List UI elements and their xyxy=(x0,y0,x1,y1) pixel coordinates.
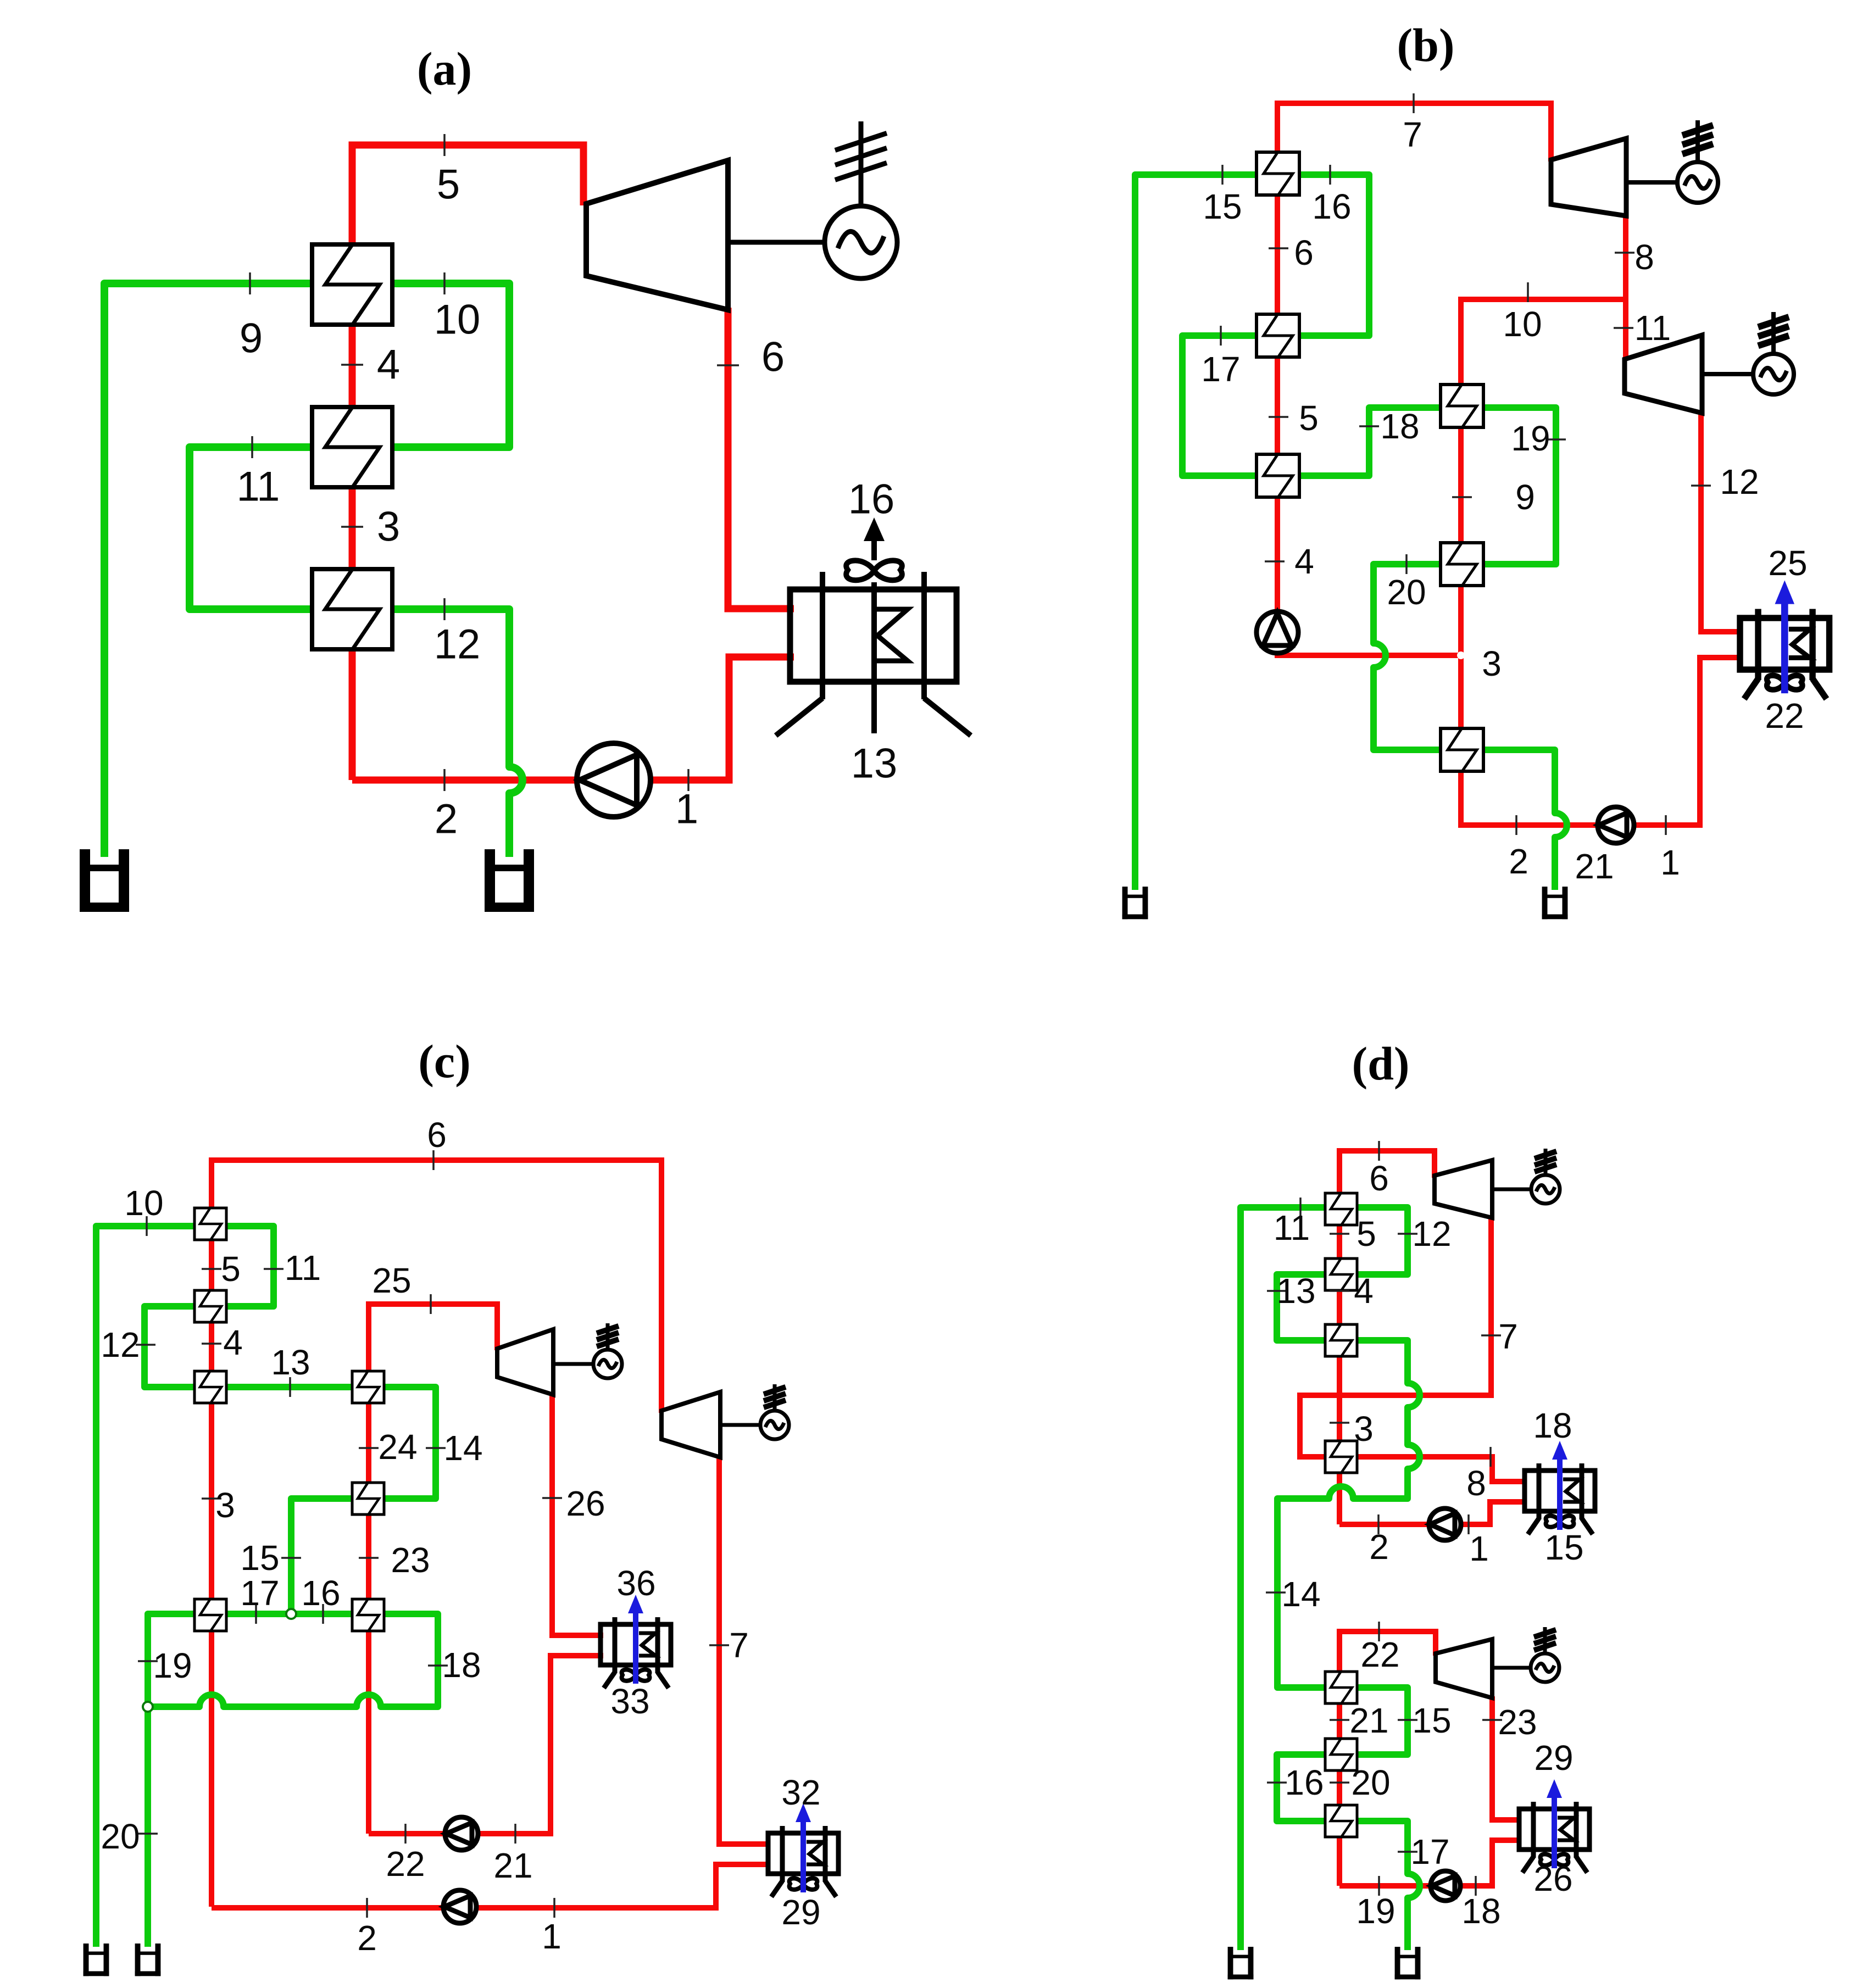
svg-text:18: 18 xyxy=(442,1645,481,1685)
svg-text:16: 16 xyxy=(301,1573,340,1613)
wire red c26: turbine c1 exhaust to ACC1 xyxy=(552,1393,603,1635)
generator b-G1 xyxy=(1677,120,1718,203)
turbine d-T2 xyxy=(1436,1639,1492,1698)
svg-text:11: 11 xyxy=(237,464,280,510)
wire green 10: HX1 to HX2 xyxy=(390,283,509,447)
svg-text:17: 17 xyxy=(1201,349,1240,389)
junction tee ring c (15/16/17) xyxy=(286,1609,296,1619)
heat exchanger a-HX2 (11) xyxy=(312,407,392,487)
heat exchanger c-HX2 (5/12) xyxy=(194,1290,226,1322)
sink c-S2 xyxy=(135,1944,161,1976)
svg-text:26: 26 xyxy=(1533,1859,1572,1898)
sink d-S1 xyxy=(1228,1947,1254,1979)
generator c-G1 xyxy=(593,1323,622,1378)
junction merge ring c (19/20) xyxy=(143,1702,153,1712)
wire green d17: to sink2 with hop xyxy=(1355,1821,1420,1950)
heat exchanger b-HX4 (18/19) xyxy=(1441,385,1483,427)
wire red c7: turbine c2 exhaust down to ACC2 xyxy=(719,1455,768,1844)
wire green b20 with hop over red xyxy=(1374,564,1442,750)
heat exchanger c-HX6 (17/19) xyxy=(194,1599,226,1631)
wire red c1: ACC2 out to bottom line to column1 xyxy=(212,1864,768,1908)
turbine a-T1 xyxy=(586,160,728,310)
svg-text:6: 6 xyxy=(1369,1159,1389,1198)
svg-text:7: 7 xyxy=(729,1625,749,1665)
wire green c16-17: middle row through tee xyxy=(224,1611,354,1617)
ticks and labels panel c xyxy=(101,1115,820,1958)
heat exchanger c-HX3 (4/13) xyxy=(194,1371,226,1403)
svg-text:5: 5 xyxy=(437,162,460,208)
svg-text:8: 8 xyxy=(1466,1463,1486,1503)
svg-text:7: 7 xyxy=(1403,115,1422,154)
svg-text:10: 10 xyxy=(434,297,481,343)
svg-text:13: 13 xyxy=(851,740,898,787)
wire green c13: HX3 to HX4 xyxy=(224,1384,354,1390)
wire red d18-19: ACC d2 out through pump d2 back to column xyxy=(1339,1840,1519,1886)
air cooled condenser c-ACC2 (29/32) xyxy=(768,1803,838,1897)
svg-text:23: 23 xyxy=(1498,1702,1537,1742)
svg-text:6: 6 xyxy=(1294,233,1314,272)
svg-text:11: 11 xyxy=(1274,1208,1310,1248)
svg-text:3: 3 xyxy=(215,1485,235,1525)
heat exchanger b-HX1 (15/16) xyxy=(1257,152,1299,195)
heat exchanger c-HX7 (16/18) xyxy=(352,1599,384,1631)
wire green b16: HX1 to HX2 xyxy=(1298,175,1369,336)
svg-text:15: 15 xyxy=(1544,1528,1583,1567)
svg-text:17: 17 xyxy=(1410,1832,1449,1872)
svg-text:9: 9 xyxy=(1515,477,1535,517)
wire green d14: with hops to lower cycle xyxy=(1277,1340,1420,1688)
wire red 6: turbine exhaust to condenser inlet xyxy=(728,308,794,609)
wire red b7: pump1 up through heater column to turbine 1 xyxy=(1277,103,1551,637)
svg-text:6: 6 xyxy=(427,1115,447,1155)
svg-text:8: 8 xyxy=(1634,237,1654,277)
svg-text:19: 19 xyxy=(1511,419,1550,458)
svg-text:1: 1 xyxy=(1469,1529,1489,1568)
svg-text:12: 12 xyxy=(1720,462,1759,502)
svg-text:7: 7 xyxy=(1498,1317,1518,1356)
svg-text:19: 19 xyxy=(1356,1891,1395,1931)
turbine b-T2 xyxy=(1625,335,1702,413)
heat exchanger d-HX5 (21/20) xyxy=(1325,1739,1357,1770)
svg-text:14: 14 xyxy=(443,1428,482,1468)
wire green b21: to sink2 with hop over red xyxy=(1482,750,1567,890)
sink b-S2 xyxy=(1542,887,1568,919)
svg-text:22: 22 xyxy=(386,1844,425,1884)
wire green c15: HX5 down to tee xyxy=(291,1499,354,1614)
svg-text:(b): (b) xyxy=(1397,19,1454,71)
wire red d1-2: ACC d1 out through pump d1 back to column xyxy=(1339,1502,1525,1524)
svg-text:10: 10 xyxy=(1503,304,1542,344)
generator a-G1 with grid symbol xyxy=(825,121,897,279)
svg-text:11: 11 xyxy=(1634,308,1671,348)
svg-text:20: 20 xyxy=(1351,1763,1390,1802)
wire green c20: merge down to sink2 xyxy=(144,1707,151,1947)
svg-text:20: 20 xyxy=(101,1817,140,1856)
svg-text:3: 3 xyxy=(377,504,400,550)
svg-text:11: 11 xyxy=(285,1248,321,1288)
svg-text:26: 26 xyxy=(566,1484,605,1523)
svg-text:18: 18 xyxy=(1380,406,1419,446)
svg-text:4: 4 xyxy=(1294,542,1314,581)
heat exchanger a-HX1 (9/10) xyxy=(312,244,392,325)
turbine c-T2 xyxy=(661,1392,720,1457)
heat exchanger b-HX5 (9/20) xyxy=(1441,543,1483,586)
shaft d-T2 xyxy=(1492,1666,1531,1670)
svg-text:3: 3 xyxy=(1482,644,1502,683)
svg-text:1: 1 xyxy=(675,786,698,833)
heat exchanger d-HX6 (20/17) xyxy=(1325,1805,1357,1837)
sink a-S2 xyxy=(485,849,534,912)
shaft d-T1 xyxy=(1492,1188,1532,1191)
turbine d-T1 xyxy=(1435,1160,1492,1218)
wire green b18: HX3 to HX right column xyxy=(1298,408,1442,476)
heat exchanger b-HX2 (17) xyxy=(1257,314,1299,357)
pump c-P2 xyxy=(443,1890,476,1923)
pump d-P1 xyxy=(1429,1508,1461,1540)
wire green c19: HX6 left down to merge ring xyxy=(148,1614,197,1707)
sink b-S1 xyxy=(1122,887,1148,919)
heat exchanger d-HX2 (13/4) xyxy=(1325,1258,1357,1290)
wire green b19 xyxy=(1482,408,1556,564)
svg-text:2: 2 xyxy=(357,1918,377,1958)
svg-text:22: 22 xyxy=(1360,1635,1399,1674)
wire red b1: condenser outlet to pump2 xyxy=(1616,658,1743,825)
air cooled condenser d-ACC1 (18/15) xyxy=(1525,1441,1595,1534)
turbine c-T1 xyxy=(497,1329,553,1395)
wire green d13 xyxy=(1277,1274,1327,1340)
svg-text:4: 4 xyxy=(377,342,400,388)
wire green d15 xyxy=(1355,1688,1408,1755)
svg-text:15: 15 xyxy=(1412,1701,1451,1740)
svg-text:16: 16 xyxy=(1285,1763,1324,1802)
svg-text:5: 5 xyxy=(1299,398,1319,438)
svg-text:2: 2 xyxy=(1509,842,1528,881)
svg-text:14: 14 xyxy=(1281,1574,1320,1614)
svg-text:23: 23 xyxy=(391,1540,430,1580)
wire green b15: source to HX top and sink1 xyxy=(1135,175,1258,890)
heat exchanger c-HX5 (23) xyxy=(352,1483,384,1514)
air-cooled condenser a-ACC (13/16) xyxy=(776,517,971,736)
svg-text:(c): (c) xyxy=(418,1035,470,1088)
pump c-P1 xyxy=(445,1817,478,1850)
wire green c12 xyxy=(144,1306,197,1387)
wire red c6: column 1 up to turbine c2 xyxy=(212,1160,661,1907)
air cooled condenser d-ACC2 (29/26) xyxy=(1519,1779,1589,1873)
svg-text:2: 2 xyxy=(435,796,458,843)
heat exchanger b-HX6 xyxy=(1441,728,1483,771)
svg-text:(a): (a) xyxy=(417,42,472,95)
wire green c10: source to sink1 xyxy=(96,1226,197,1947)
pump b-P1 (vertical) xyxy=(1257,611,1298,653)
svg-text:12: 12 xyxy=(101,1325,140,1365)
wire green c14: HX4 to HX5 xyxy=(382,1387,436,1499)
sink a-S1 xyxy=(80,849,129,912)
heat exchanger b-HX3 xyxy=(1257,454,1299,497)
svg-text:24: 24 xyxy=(378,1427,417,1467)
svg-text:33: 33 xyxy=(610,1681,649,1721)
heat exchanger c-HX1 (10/11) xyxy=(194,1208,226,1240)
svg-text:25: 25 xyxy=(1768,543,1807,583)
air cooled condenser c-ACC1 (33/36) xyxy=(601,1595,671,1688)
heat exchanger a-HX3 (12) xyxy=(312,569,392,649)
heat exchanger c-HX4 (24) xyxy=(352,1371,384,1403)
svg-text:4: 4 xyxy=(1354,1271,1374,1311)
generator c-G2 xyxy=(760,1384,789,1439)
generator b-G2 xyxy=(1753,312,1794,394)
pump a-P1 xyxy=(577,743,651,817)
generator d-G2 xyxy=(1531,1627,1559,1682)
svg-text:(d): (d) xyxy=(1352,1037,1409,1090)
ticks and labels panel d xyxy=(1266,1141,1584,1931)
wire red c25: column 2 to turbine c1 xyxy=(369,1304,497,1834)
shaft a xyxy=(728,240,825,245)
heat exchanger d-HX1 (11/5) xyxy=(1325,1193,1357,1225)
sink d-S2 xyxy=(1395,1947,1421,1979)
wire red 5: evaporator outlet to turbine inlet xyxy=(352,145,583,780)
ticks and labels panel b xyxy=(1201,93,1807,886)
svg-text:21: 21 xyxy=(493,1846,532,1885)
svg-text:32: 32 xyxy=(781,1773,820,1812)
svg-text:15: 15 xyxy=(240,1538,279,1578)
wire red c21-22: ACC1 out through pump c1 to column 2 xyxy=(369,1656,603,1834)
wire red b8-10: turbine1 exhaust to turbine2 and branch to HX column xyxy=(1623,214,1628,361)
junction node 3 xyxy=(1457,651,1465,659)
heat exchanger d-IHE (3) xyxy=(1325,1441,1357,1473)
wire green 11: HX2 to HX3 xyxy=(190,447,314,609)
svg-text:9: 9 xyxy=(240,315,263,362)
svg-text:12: 12 xyxy=(434,621,481,668)
turbine b-T1 xyxy=(1551,138,1626,216)
generator d-G1 xyxy=(1531,1149,1560,1204)
wire red d7: turbine d1 exhaust loop to IHE hot side xyxy=(1300,1216,1491,1457)
svg-text:18: 18 xyxy=(1533,1406,1572,1445)
svg-text:13: 13 xyxy=(1276,1271,1315,1311)
wire red b3: pump1 outlet to junction xyxy=(1277,632,1461,655)
svg-text:5: 5 xyxy=(1356,1214,1376,1254)
svg-text:2: 2 xyxy=(1369,1527,1389,1567)
wire green c18: HX7 right down and back left with hops xyxy=(148,1614,438,1707)
heat exchanger d-HX4 (22/21) xyxy=(1325,1672,1357,1703)
wire red d6: upper column to turbine d1 xyxy=(1339,1151,1435,1524)
svg-text:29: 29 xyxy=(781,1892,820,1932)
wire red 1-2: condenser outlet through pump to heater train xyxy=(352,657,794,780)
svg-text:6: 6 xyxy=(761,334,785,381)
svg-text:18: 18 xyxy=(1461,1891,1500,1931)
svg-text:13: 13 xyxy=(271,1343,310,1382)
svg-text:36: 36 xyxy=(616,1563,655,1603)
svg-text:3: 3 xyxy=(1354,1409,1374,1449)
svg-text:10: 10 xyxy=(124,1183,163,1223)
wire red d23: turbine d2 exhaust to ACC d2 xyxy=(1492,1696,1519,1820)
shaft b-T1 xyxy=(1626,180,1677,185)
sink c-S1 xyxy=(84,1944,109,1976)
svg-text:22: 22 xyxy=(1765,696,1804,736)
svg-text:16: 16 xyxy=(848,476,895,523)
wire red b12: turbine2 exhaust to condenser xyxy=(1701,411,1743,632)
svg-text:16: 16 xyxy=(1312,187,1351,226)
svg-text:17: 17 xyxy=(240,1573,279,1613)
wire green d11: source to sink1 xyxy=(1241,1207,1327,1950)
heat exchanger d-HX3 xyxy=(1325,1324,1357,1356)
svg-text:1: 1 xyxy=(542,1917,561,1956)
wire green c11 xyxy=(224,1226,274,1306)
svg-text:21: 21 xyxy=(1349,1701,1388,1740)
wire green d12 xyxy=(1355,1207,1408,1274)
wire green 12: HX3 to sink 2 with hop over red xyxy=(390,609,522,857)
svg-text:21: 21 xyxy=(1575,847,1614,886)
svg-text:25: 25 xyxy=(372,1261,411,1300)
shaft c-T1 xyxy=(553,1362,593,1366)
svg-text:19: 19 xyxy=(153,1646,192,1685)
shaft b-T2 xyxy=(1702,372,1753,376)
ticks and labels panel a xyxy=(237,134,898,843)
air cooled condenser b-ACC (22/25) xyxy=(1740,580,1830,699)
svg-text:29: 29 xyxy=(1534,1738,1573,1778)
wire green b17: HX2 to HX3 xyxy=(1182,336,1258,476)
svg-text:1: 1 xyxy=(1660,843,1680,882)
wire green 9: heat source to sink 1 xyxy=(104,283,314,857)
svg-text:12: 12 xyxy=(1412,1214,1451,1254)
wire red d8: IHE to ACC d1 xyxy=(1355,1457,1525,1482)
pump b-P2 xyxy=(1598,807,1634,843)
wire green d16 xyxy=(1277,1755,1327,1821)
svg-text:15: 15 xyxy=(1203,187,1242,226)
svg-text:20: 20 xyxy=(1387,572,1426,612)
wire red d22: lower column to turbine d2 xyxy=(1339,1631,1436,1886)
shaft c-T2 xyxy=(720,1423,760,1427)
pump d-P2 xyxy=(1431,1871,1460,1901)
svg-text:4: 4 xyxy=(223,1323,243,1362)
svg-text:5: 5 xyxy=(221,1249,241,1289)
